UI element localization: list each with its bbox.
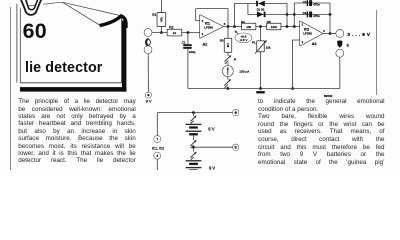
input terminal bottom: [144, 46, 151, 53]
svg-text:D2: D2: [261, 7, 265, 11]
wire to battery 2: [193, 147, 195, 151]
card folded corner flap: [62, 2, 120, 25]
clip B symbol: [337, 40, 350, 47]
svg-text:470n: 470n: [313, 2, 320, 6]
wire cap riser E: [329, 3, 331, 34]
svg-text:-0.6 V: -0.6 V: [239, 38, 247, 42]
svg-text:C2: C2: [303, 0, 307, 4]
svg-text:470n: 470n: [313, 14, 320, 18]
wire P1 top: [260, 27, 262, 42]
page rule right: [376, 10, 378, 95]
svg-text:R1: R1: [152, 13, 156, 17]
node pin3/rail: [291, 87, 294, 90]
wire pin4 down: [156, 159, 158, 170]
wire diode riser A: [235, 4, 288, 27]
card left edge double line: [17, 4, 20, 83]
wire R1 bottom: [160, 26, 162, 33]
wire R3 to break A: [227, 52, 229, 56]
wire mid tap: [194, 146, 233, 148]
electrode symbol: [146, 39, 151, 46]
capacitor C2: [303, 0, 321, 6]
svg-text:1k: 1k: [173, 31, 177, 35]
supply: wire top: [157, 113, 232, 136]
op-amp IC2: [300, 21, 325, 46]
supply terminal plus: [233, 110, 239, 116]
input terminal top: [144, 29, 151, 36]
output terminal top: [336, 30, 343, 37]
wire C1 bottom: [187, 49, 189, 89]
node riser B / main wire: [286, 25, 289, 28]
body text right column: [258, 98, 385, 166]
svg-text:A1: A1: [203, 43, 208, 47]
wire A2 output: [323, 33, 337, 35]
wire C3 line: [294, 13, 330, 15]
card top edge: [28, 2, 62, 6]
wire meter to break: [227, 76, 229, 79]
svg-text:R5: R5: [267, 20, 271, 24]
svg-text:9 V: 9 V: [209, 166, 215, 171]
break arrow A lower: [224, 79, 231, 88]
node riser D / main wire: [293, 25, 296, 28]
svg-text:A: A: [234, 58, 237, 62]
svg-text:LF356: LF356: [204, 25, 213, 29]
svg-text:7: 7: [156, 137, 158, 141]
wire R3 top: [227, 27, 229, 39]
node P1 junction: [259, 25, 262, 28]
supply pin 4: [154, 152, 161, 159]
wire battery top: [193, 113, 195, 116]
wire output to rail: [188, 57, 340, 89]
svg-text:100µ: 100µ: [189, 50, 196, 54]
svg-text:83540: 83540: [324, 94, 333, 98]
wire A1 output: [223, 26, 300, 28]
wire input: [152, 32, 200, 34]
svg-text:10M: 10M: [271, 25, 277, 29]
output terminal bottom: [336, 50, 343, 57]
paper clip: [20, 0, 42, 15]
node riser B / D2 line: [286, 13, 289, 16]
body text left column: [18, 98, 136, 165]
wire cap riser D: [294, 3, 330, 27]
svg-text:0 . . . 9 V: 0 . . . 9 V: [348, 32, 371, 37]
resistor R5: [267, 20, 281, 29]
svg-text:4: 4: [156, 154, 158, 158]
svg-text:B: B: [235, 146, 237, 150]
card right edge: [121, 17, 123, 83]
resistor R4: [241, 20, 256, 29]
diode D1: [256, 1, 265, 12]
svg-text:4k7: 4k7: [226, 43, 230, 48]
break arrow A upper: [225, 55, 237, 64]
supply pin 7: [154, 136, 161, 143]
wire input to 9V terminal: [147, 54, 149, 93]
wire P1 bottom: [260, 51, 262, 88]
wire break to meter: [227, 63, 229, 66]
svg-text:R3: R3: [220, 38, 224, 42]
node C1 junction: [187, 31, 190, 34]
node P1/rail: [259, 87, 262, 90]
card corner curl: [100, 16, 126, 28]
svg-text:R4: R4: [241, 20, 245, 24]
meter M 100uA: [223, 66, 251, 76]
svg-text:C3: C3: [303, 11, 307, 15]
node riser E / C3: [329, 13, 332, 16]
op-amp IC1: [200, 15, 226, 47]
wire break to rail: [227, 87, 229, 89]
svg-text:10k: 10k: [246, 25, 251, 29]
svg-text:R2: R2: [169, 26, 173, 30]
svg-text:9 V: 9 V: [146, 98, 152, 103]
svg-text:P1: P1: [252, 41, 256, 45]
voltage callout: [235, 30, 252, 42]
wire battery mid: [193, 135, 195, 140]
resistor R1: [152, 13, 165, 26]
node feedback/R3: [227, 25, 230, 28]
supply terminal B: [233, 144, 239, 150]
svg-text:IC1, IC2: IC1, IC2: [152, 147, 164, 151]
svg-text:10k: 10k: [266, 45, 271, 49]
break arrow battery 3: [190, 152, 196, 160]
svg-text:B: B: [347, 43, 350, 47]
node riser D / C3 line: [293, 13, 296, 16]
break arrow battery 2: [190, 140, 196, 148]
battery BT1 9V: [186, 124, 215, 135]
wire diode riser B: [286, 4, 288, 27]
resistor R3: [220, 38, 232, 51]
node battery mid tap: [192, 146, 195, 149]
card shadow right: [122, 21, 127, 92]
svg-text:6: 6: [224, 22, 226, 26]
diode D2: [257, 7, 265, 17]
card shadow bottom: [20, 87, 126, 92]
title number 60: [23, 21, 47, 42]
battery BT2 9V: [186, 160, 216, 170]
svg-text:100 µA: 100 µA: [239, 70, 250, 74]
node battery top: [192, 111, 195, 114]
wire D2 branch: [248, 4, 294, 15]
svg-text:A2: A2: [312, 42, 317, 46]
capacitor C3: [303, 11, 321, 18]
node R1/input junction: [160, 31, 163, 34]
wire IC2 pin3: [293, 40, 300, 89]
wire feedback A1: [196, 9, 228, 27]
wire R1 top: [160, 0, 162, 13]
page rule left: [9, 7, 11, 170]
svg-text:47k: 47k: [160, 17, 164, 22]
wire C1 top: [187, 33, 189, 45]
ground: [256, 91, 264, 93]
resistor R2: [168, 26, 182, 36]
svg-text:LF356: LF356: [303, 31, 312, 35]
break arrow battery 1: [190, 115, 196, 123]
terminal 9V: [146, 92, 152, 103]
node meter/rail: [227, 87, 230, 90]
svg-text:9 V: 9 V: [208, 126, 214, 131]
node riser E / output: [329, 32, 332, 35]
capacitor C1: [182, 40, 196, 54]
title lie detector: [25, 61, 102, 75]
card bottom edge: [20, 82, 121, 84]
svg-text:6: 6: [323, 29, 325, 33]
preset P1: [252, 40, 271, 53]
node diode riser A: [233, 25, 236, 28]
svg-text:C1: C1: [182, 40, 186, 44]
